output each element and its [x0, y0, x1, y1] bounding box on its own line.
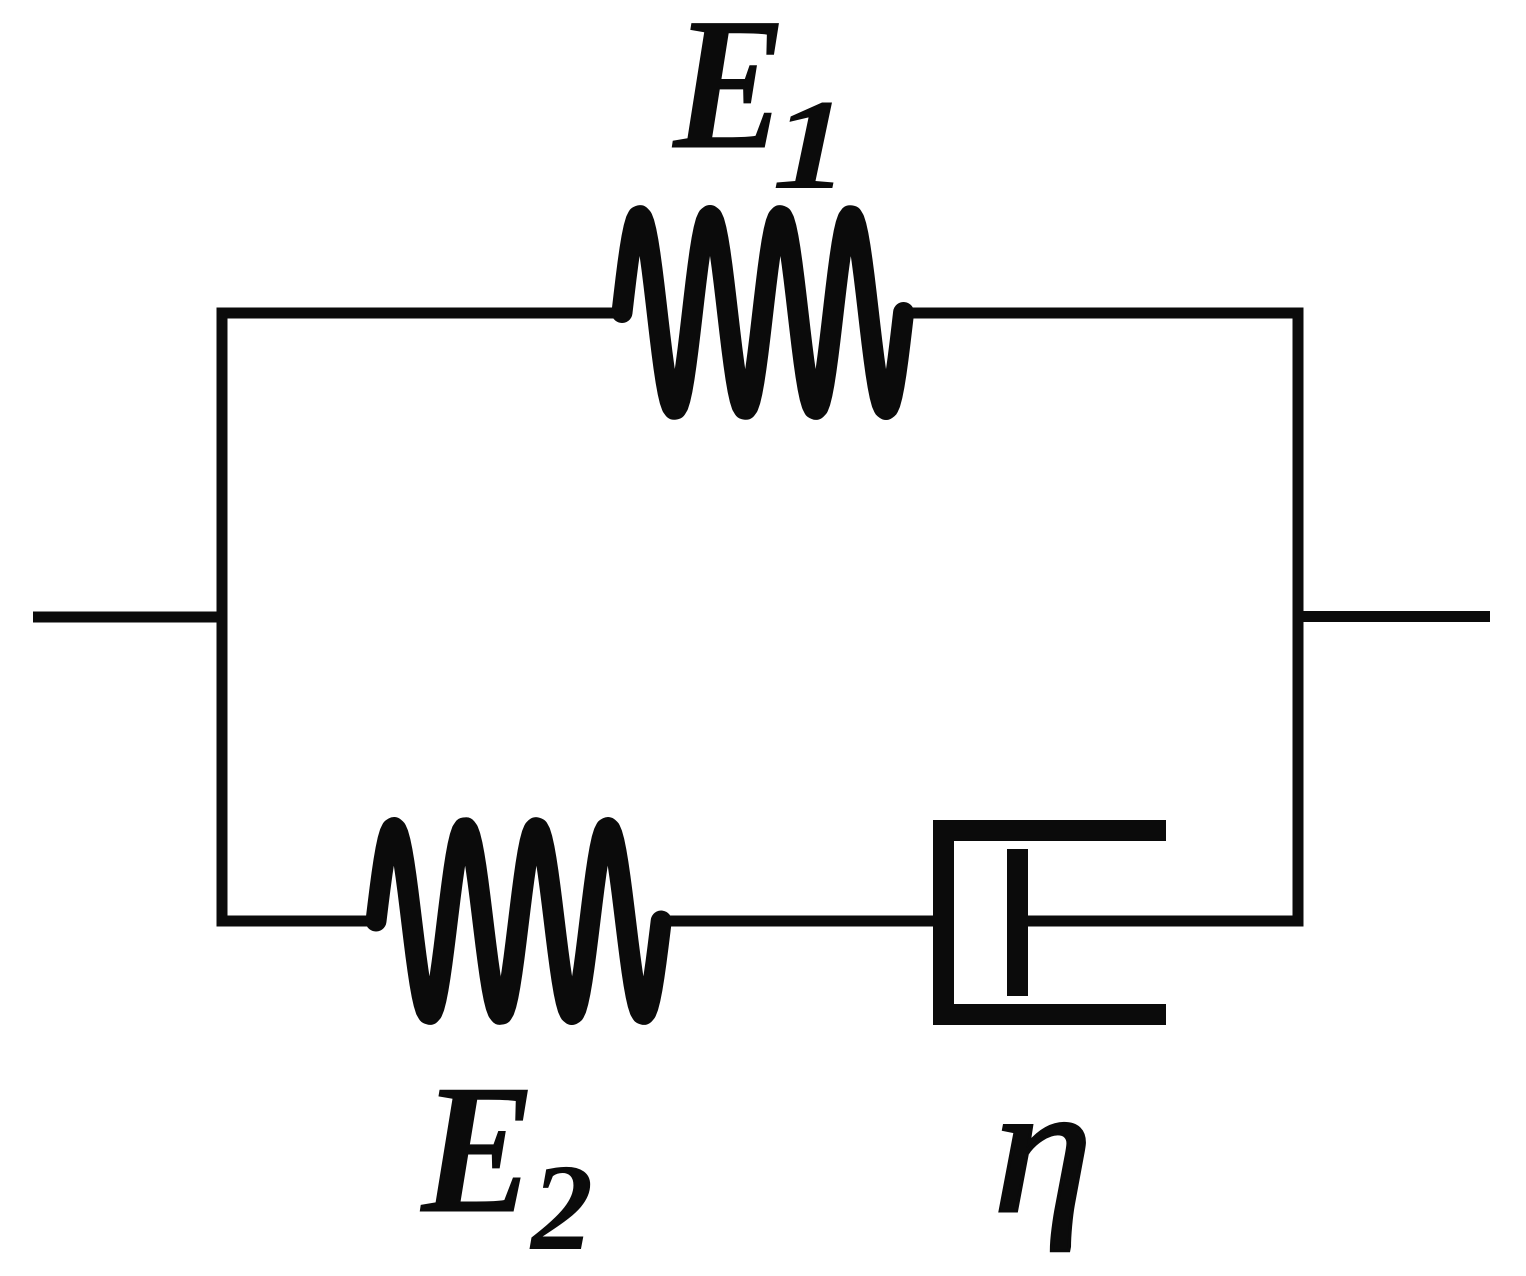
- dashpot cylinder: [944, 831, 1167, 1015]
- wire: left lead: [33, 612, 227, 623]
- svg-text:E: E: [419, 1045, 536, 1252]
- wire: piston rod: [1017, 916, 1298, 927]
- spring E1: [622, 216, 904, 410]
- label E1: [671, 0, 849, 216]
- wire: top-right segment: [899, 308, 1304, 319]
- wire: left rail: [217, 308, 228, 927]
- svg-text:η: η: [993, 1045, 1093, 1252]
- wire: right lead: [1298, 611, 1490, 622]
- svg-text:E: E: [671, 0, 787, 190]
- dashpot piston: [1007, 849, 1028, 996]
- label E2: [419, 1045, 593, 1276]
- svg-text:1: 1: [772, 72, 849, 216]
- spring E2: [376, 828, 661, 1015]
- label eta: [993, 1045, 1093, 1252]
- wire: bottom-left segment: [217, 916, 383, 927]
- svg-text:2: 2: [529, 1139, 593, 1276]
- wire: bottom middle segment into dashpot: [656, 916, 938, 927]
- wire: top-left segment: [217, 308, 628, 319]
- wire: right rail: [1293, 308, 1304, 927]
